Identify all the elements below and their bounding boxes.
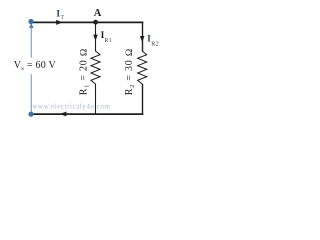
svg-text:R1 = 20 Ω: R1 = 20 Ω	[79, 48, 91, 95]
svg-text:R2: R2	[151, 42, 159, 48]
node top-left (blue dot)	[28, 19, 33, 24]
current arrow on bottom wire (left)	[60, 112, 67, 117]
source EMF arrow (blue, up)	[29, 23, 34, 28]
wire top (node to node A to R2 corner)	[31, 21, 143, 23]
resistor R1 zigzag	[91, 51, 100, 84]
wire R1 branch lower lead	[95, 84, 97, 115]
wire right branch upper lead (R2)	[142, 22, 144, 52]
resistor R2 zigzag	[138, 51, 147, 84]
current arrow I_R2 (down)	[140, 36, 145, 42]
svg-text:Vs = 60 V: Vs = 60 V	[14, 60, 57, 72]
node bottom-left (blue dot)	[28, 112, 33, 117]
svg-text:R1: R1	[104, 38, 111, 44]
svg-text:R2 = 30 Ω: R2 = 30 Ω	[124, 48, 136, 95]
current arrow I_R1 (down)	[93, 35, 98, 41]
wire R1 branch upper lead	[95, 22, 97, 51]
current arrow I_T (right) on top wire	[56, 20, 63, 25]
wire bottom	[31, 113, 143, 115]
node A junction dot	[93, 20, 98, 25]
source wire (blue)	[30, 22, 32, 115]
label V_s = 60 V (with white backing)	[13, 58, 59, 75]
wire right branch lower lead (R2)	[142, 84, 144, 115]
svg-text:www.electricaly4u.com: www.electricaly4u.com	[33, 103, 111, 111]
svg-text:A: A	[94, 8, 102, 19]
svg-text:T: T	[61, 15, 65, 21]
